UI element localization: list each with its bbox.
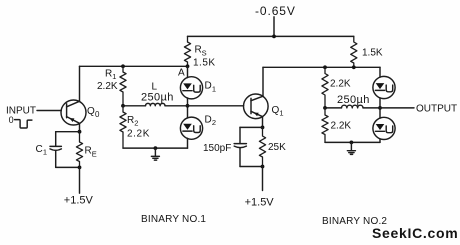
svg-text:250µh: 250µh xyxy=(337,94,370,106)
tunnel diode D4 xyxy=(373,117,395,139)
label R2 xyxy=(127,115,138,128)
node: diode pair midpoint (Q1 base node) xyxy=(186,104,190,108)
resistor 2.2K lower (binary2) xyxy=(322,108,328,142)
wire: node A to D1 xyxy=(187,66,189,77)
node: binary2 emitter bottom node xyxy=(261,165,265,169)
svg-text:R: R xyxy=(85,146,92,157)
wire: C1 branch bottom rail xyxy=(56,166,80,168)
label Q1 xyxy=(272,105,284,118)
wire: coil2 line left segment xyxy=(325,107,342,109)
svg-text:SeekIC.com: SeekIC.com xyxy=(372,225,458,241)
wire: binary2 top rail xyxy=(263,66,380,68)
tunnel diode D2 xyxy=(180,117,202,139)
svg-text:R: R xyxy=(105,68,112,79)
node: binary1 emitter bottom node xyxy=(78,166,82,170)
svg-text:Q: Q xyxy=(272,105,280,116)
wire: Q0 collector riser xyxy=(79,66,81,101)
svg-text:+1.5V: +1.5V xyxy=(64,194,94,206)
svg-text:25K: 25K xyxy=(268,142,286,153)
node: output node xyxy=(378,106,382,110)
svg-text:1.5K: 1.5K xyxy=(193,57,216,68)
wire: binary1 top rail xyxy=(80,65,188,67)
resistor 25K xyxy=(259,127,265,166)
capacitor 150pF xyxy=(234,144,246,148)
resistor R1 xyxy=(120,66,126,106)
label RE xyxy=(85,146,97,159)
svg-text:2.2K: 2.2K xyxy=(127,129,150,140)
node: ground tap binary1 xyxy=(154,146,158,150)
node: 2.2K top junction xyxy=(323,65,327,69)
svg-text:2.2K: 2.2K xyxy=(331,121,352,132)
wire: Q1 collector riser xyxy=(262,67,264,96)
node: supply tap junction xyxy=(272,35,276,39)
node A junction xyxy=(186,64,190,68)
wire: binary2 bottom rail xyxy=(325,141,380,143)
svg-text:2: 2 xyxy=(212,118,216,127)
tunnel diode D3 xyxy=(373,76,395,98)
capacitor C1 xyxy=(50,146,61,150)
svg-text:2.2K: 2.2K xyxy=(97,81,118,92)
wire: top supply rail xyxy=(188,35,354,37)
ground (binary2) xyxy=(347,142,355,154)
svg-text:-0.65V: -0.65V xyxy=(255,4,296,18)
node: 1.5K bottom junction xyxy=(352,65,356,69)
svg-text:2.2K: 2.2K xyxy=(330,79,351,90)
wire: stub to +1.5V (binary2) xyxy=(262,167,264,191)
wire: Q0 emitter to node xyxy=(79,124,81,132)
wire: C2 branch bottom rail xyxy=(240,166,263,168)
wire: -0.65V supply stub xyxy=(273,17,275,37)
svg-text:R: R xyxy=(127,115,134,126)
svg-text:OUTPUT: OUTPUT xyxy=(416,104,457,115)
svg-text:Q: Q xyxy=(87,106,95,117)
svg-text:S: S xyxy=(202,49,207,58)
resistor 2.2K upper (binary2) xyxy=(322,67,328,108)
wire: C1 branch top rail xyxy=(56,131,80,133)
resistor R2 xyxy=(120,106,126,148)
inductor 250uh (binary2) xyxy=(342,105,364,108)
svg-text:E: E xyxy=(92,149,97,158)
node: Q0 emitter node xyxy=(78,130,82,134)
node: Q1 emitter node xyxy=(261,126,265,130)
tunnel diode D1 xyxy=(180,77,202,99)
wire: C2 branch top rail xyxy=(240,126,263,128)
resistor 1.5K (binary2) xyxy=(351,36,357,67)
svg-text:1: 1 xyxy=(112,72,116,81)
resistor RE xyxy=(76,132,82,168)
label Q0 xyxy=(87,106,100,119)
label Rs xyxy=(195,45,207,58)
wire: D4 to bottom rail xyxy=(379,139,381,142)
wire: L line right segment xyxy=(165,105,188,107)
transistor Q0 xyxy=(61,100,86,125)
svg-text:1.5K: 1.5K xyxy=(362,48,383,59)
wire: C1 branch lower left drop xyxy=(55,151,57,168)
label R1 xyxy=(105,68,116,81)
svg-text:1: 1 xyxy=(279,109,283,118)
svg-text:BINARY NO.1: BINARY NO.1 xyxy=(141,214,206,225)
wire: stub to +1.5V (binary1) xyxy=(79,167,81,193)
ground (binary1) xyxy=(151,148,159,160)
svg-text:0: 0 xyxy=(95,110,100,119)
transistor Q1 xyxy=(244,94,269,119)
wire: C2 branch upper drop xyxy=(239,127,241,143)
wire: D3 top drop xyxy=(379,67,381,77)
wire: binary1 bottom rail xyxy=(123,147,188,149)
input pulse waveform glyph xyxy=(15,120,32,128)
node: R1/R2/L junction xyxy=(121,104,125,108)
wire: input to Q0 base xyxy=(37,110,61,112)
node: ground tap binary2 xyxy=(350,141,354,145)
inductor L 250uh xyxy=(146,103,166,105)
wire: output lead xyxy=(380,107,414,109)
svg-text:150pF: 150pF xyxy=(203,143,231,154)
svg-text:+1.5V: +1.5V xyxy=(245,197,275,209)
wire: D2 to bottom rail xyxy=(187,138,189,148)
resistor Rs xyxy=(184,36,190,66)
wire: coil2 line right segment xyxy=(363,107,380,109)
svg-text:2: 2 xyxy=(134,118,138,127)
svg-text:1: 1 xyxy=(43,147,47,156)
wire: Q1 base line xyxy=(188,105,244,107)
wire: Q1 emitter to node xyxy=(262,117,264,128)
svg-text:0: 0 xyxy=(9,115,14,125)
wire: D3-D4 link xyxy=(379,98,381,118)
wire: C1 branch upper left drop xyxy=(55,132,57,147)
label C1 xyxy=(36,144,48,157)
wire: D1-D2 link xyxy=(187,98,189,118)
label D1 xyxy=(205,81,217,94)
svg-text:D: D xyxy=(205,115,212,126)
node: R1 top junction xyxy=(121,64,125,68)
node: 2.2K midpoint junction xyxy=(323,106,327,110)
wire: L line left segment xyxy=(123,105,146,107)
svg-text:A: A xyxy=(178,68,185,79)
svg-text:1: 1 xyxy=(212,84,216,93)
svg-text:250µh: 250µh xyxy=(141,91,174,103)
svg-text:D: D xyxy=(205,81,212,92)
wire: C2 branch lower drop xyxy=(239,148,241,167)
label D2 xyxy=(205,115,217,128)
svg-text:C: C xyxy=(36,144,43,155)
